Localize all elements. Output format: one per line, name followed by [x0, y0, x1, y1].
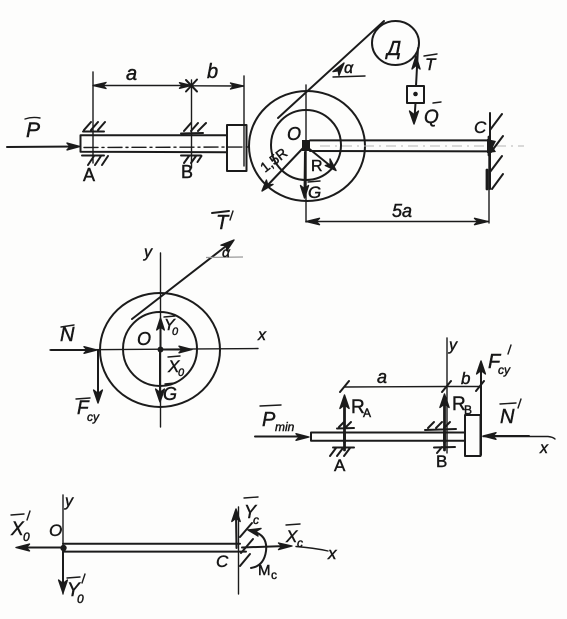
support A pin [343, 432, 346, 450]
svg-text:c: c [253, 513, 259, 527]
big pulley inner circle [271, 110, 341, 180]
svg-text:A: A [363, 406, 371, 420]
support B lower hatch [181, 156, 202, 164]
X0 arrow [161, 349, 186, 351]
svg-text:T: T [216, 212, 230, 234]
big pulley outer circle [249, 91, 365, 201]
support B upper hatch [425, 422, 456, 430]
small pulley [372, 21, 419, 65]
R_A arrow [343, 402, 346, 442]
T' arrow [132, 243, 230, 319]
tick X at B [186, 80, 197, 92]
svg-text:P: P [262, 409, 276, 431]
svg-text:b: b [207, 61, 218, 83]
beam left segment [81, 135, 228, 152]
svg-text:c: c [297, 536, 303, 550]
svg-text:O: O [287, 124, 301, 144]
P_min arrow [255, 436, 303, 438]
wall anchor blob at beam end [487, 139, 496, 153]
x axis (bottom) [296, 547, 328, 552]
beam centerline dash-dot [84, 146, 248, 149]
gravity G arrow [304, 152, 307, 192]
extension line right of b [243, 76, 245, 166]
svg-text:α: α [222, 244, 231, 260]
svg-text:0: 0 [23, 530, 30, 544]
alpha reference line [206, 256, 243, 259]
svg-text:y: y [64, 493, 74, 510]
dimension line 5a [306, 221, 488, 223]
support B vertical [191, 80, 193, 168]
x axis (fbd) [483, 437, 555, 440]
svg-text:O: O [49, 521, 62, 540]
svg-text:cy: cy [498, 363, 511, 377]
Yc arrow [235, 515, 238, 548]
svg-text:R: R [311, 158, 323, 175]
svg-text:x: x [327, 544, 337, 563]
hatch at C [240, 523, 253, 566]
alpha angle arrow on rope [333, 63, 344, 75]
vertical centerline through pulley [305, 85, 307, 222]
svg-text:P: P [26, 119, 40, 142]
Y0' arrow [62, 552, 64, 586]
inner circle [123, 312, 197, 386]
force P arrow [7, 146, 76, 149]
svg-text:x: x [539, 440, 549, 457]
support B upper hatch [181, 123, 206, 134]
svg-text:B: B [181, 162, 193, 182]
svg-text:Q: Q [424, 107, 439, 128]
svg-text:N: N [500, 406, 515, 428]
hub [302, 140, 310, 151]
svg-text:min: min [275, 420, 295, 434]
rope down from small pulley [416, 48, 418, 86]
svg-text:C: C [216, 552, 229, 571]
dimension a (fbd) [345, 386, 448, 389]
beam right segment [310, 140, 489, 151]
G arrow (circle) [159, 350, 161, 395]
svg-text:0: 0 [178, 367, 185, 379]
N arrow [51, 349, 93, 351]
alpha horizontal reference [333, 76, 365, 77]
support B lower hatch [434, 447, 455, 453]
support A lower hatch [330, 448, 354, 457]
svg-text:5a: 5a [392, 201, 412, 221]
svg-text:A: A [83, 165, 95, 185]
T arrow up [412, 56, 420, 69]
svg-text:x: x [257, 327, 267, 344]
y axis [160, 253, 162, 427]
support B pin [443, 432, 446, 450]
end block [465, 415, 481, 456]
Xc arrow [242, 546, 286, 548]
outer circle [100, 293, 220, 407]
radius R arrow [307, 147, 333, 168]
svg-text:c: c [271, 568, 277, 582]
svg-text:T: T [425, 55, 437, 74]
support A upper hatch [337, 422, 354, 429]
x axis [50, 349, 258, 351]
svg-text:B: B [436, 452, 447, 471]
bearing block [227, 125, 247, 171]
svg-text:α: α [344, 60, 354, 77]
svg-text:0: 0 [172, 326, 179, 338]
R_B arrow [443, 401, 446, 442]
svg-text:0: 0 [77, 592, 84, 606]
y axis (fbd) [446, 338, 448, 453]
svg-text:y: y [448, 337, 458, 354]
svg-text:a: a [377, 367, 387, 387]
center dot [158, 347, 164, 353]
rope to small pulley [278, 21, 384, 118]
beam (bottom) [63, 544, 246, 552]
svg-text:O: O [137, 329, 151, 349]
dimension line a [93, 85, 192, 87]
dimension line b [192, 85, 244, 87]
X0' arrow [22, 547, 63, 549]
svg-text:Д: Д [385, 38, 401, 60]
support A vertical [92, 72, 94, 163]
radius 1.5R arrow [265, 147, 304, 188]
svg-text:y: y [143, 244, 153, 261]
svg-text:C: C [474, 118, 487, 137]
wall at C [489, 113, 491, 189]
svg-text:a: a [126, 63, 137, 85]
origin dot [60, 545, 66, 551]
svg-text:b: b [461, 369, 470, 388]
y axis (bottom) [62, 495, 64, 594]
wall line at C [238, 507, 240, 594]
N' arrow [487, 435, 529, 437]
friction F arrow down [97, 350, 99, 396]
wall hatching [490, 114, 503, 189]
svg-text:G: G [308, 183, 321, 202]
wall anchor dark mark [487, 137, 489, 189]
weight block [407, 86, 424, 103]
F'_cy arrow [480, 368, 482, 455]
Q arrow down [415, 103, 416, 118]
support A upper hatch [83, 122, 105, 132]
support A lower hatch [82, 156, 108, 166]
svg-text:A: A [334, 456, 346, 475]
dimension b (fbd) [447, 386, 480, 388]
beam [311, 433, 465, 441]
svg-text:M: M [258, 562, 271, 579]
svg-text:cy: cy [87, 410, 100, 424]
faint centerline right [320, 145, 524, 147]
dimension 5a vertical extension [488, 155, 490, 223]
svg-text:G: G [163, 384, 177, 404]
moment Mc arc [251, 531, 266, 568]
Y0 arrow [160, 324, 162, 348]
